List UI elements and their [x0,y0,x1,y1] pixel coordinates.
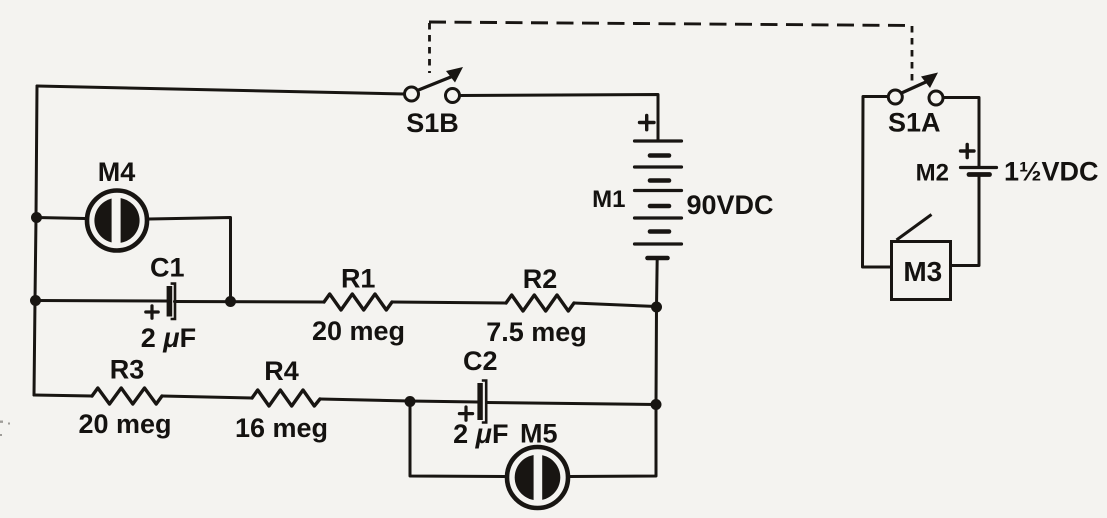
svg-text:16 meg: 16 meg [235,413,328,443]
meter M5 [507,447,568,508]
wire: middle row, C1 to R1 [175,300,325,304]
battery M1 plus sign [640,116,655,130]
svg-text:2 μF: 2 μF [141,323,196,353]
node: right rail / lower row [651,399,662,410]
capacitor C2 polarized plates [477,381,486,423]
relay M3 box [892,242,951,300]
dashed gang link: horizontal run [429,22,911,26]
switch S1B lever with arrowhead [419,67,464,90]
svg-text:M2: M2 [916,160,949,187]
wire: M5 branch, node down and right to M5 [410,402,505,477]
battery M1 plates [635,141,682,258]
capacitor C2 plus sign [459,407,472,420]
switch S1A lever with arrowhead [902,73,939,94]
wire: right rail lower node down and left to M5 [570,405,656,477]
svg-text:M5: M5 [520,419,558,449]
switch S1B contact circles [405,87,460,103]
wire: lower row, R4 through M5 node to C2 [320,399,478,402]
node: left rail / middle row [30,295,41,306]
svg-text:20 meg: 20 meg [312,316,405,346]
wire: lower row, C2 to right rail node [487,403,657,405]
resistor R4 [252,390,320,406]
node: right rail / middle row [651,302,662,313]
battery M2 plates [961,168,997,175]
svg-text:1½VDC: 1½VDC [1004,157,1099,187]
wire: middle row, R2 to right rail node [574,303,657,307]
wire: lower row, R3 to R4 [162,396,252,398]
resistor R3 [92,388,162,404]
node: middle row / M4 drop [225,296,236,307]
wire: S1B to battery M1 positive terminal [460,95,659,141]
wire: top horizontal rail to S1B [37,86,405,94]
wire: S1A left lead and left side of relay loop [863,97,892,268]
resistor R2 [506,295,574,311]
svg-text:2 μF: 2 μF [453,419,508,449]
battery M2 plus sign [961,144,975,157]
node: lower row / M5 branch [405,396,416,407]
wire: middle row, left rail to C1 [36,299,167,303]
meter M4 [87,191,147,251]
wire: S1A right lead down to battery M2 [943,98,979,167]
svg-text:R1: R1 [341,264,376,294]
capacitor C1 polarized plates [167,284,175,319]
svg-text:90VDC: 90VDC [686,190,773,220]
wire: left rail node to M4 [37,218,86,219]
relay M3 armature lever [897,215,932,241]
svg-text:R2: R2 [523,264,558,294]
wire: battery M1 negative to middle-row node [655,258,659,307]
wire: battery M2 negative down to relay M3 [951,175,979,266]
resistor R1 [324,294,392,310]
svg-text:20 meg: 20 meg [78,409,171,439]
wire: left vertical rail [34,86,37,395]
wire: right rail middle node to lower node [655,307,659,405]
wire: M4 to drop into middle row [149,218,231,302]
svg-text:S1A: S1A [888,108,941,138]
svg-text:C1: C1 [150,253,185,283]
dashed gang link: vertical at S1B [428,23,431,73]
switch S1A contact circles [888,90,943,105]
svg-text:R4: R4 [264,356,299,386]
wire: middle row, R1 to R2 [392,302,506,303]
svg-text:M1: M1 [592,186,625,213]
svg-text:M4: M4 [98,157,136,187]
dashed gang link: vertical at S1A [911,26,914,85]
wire: lower row, left corner to R3 [34,395,92,396]
capacitor C1 plus sign [146,306,158,318]
svg-text:7.5 meg: 7.5 meg [486,317,587,347]
svg-text:S1B: S1B [406,108,459,138]
svg-text:R3: R3 [110,355,145,385]
svg-text:C2: C2 [463,346,498,376]
svg-text:M3: M3 [903,256,942,287]
node: left rail / M4 branch [31,212,42,223]
